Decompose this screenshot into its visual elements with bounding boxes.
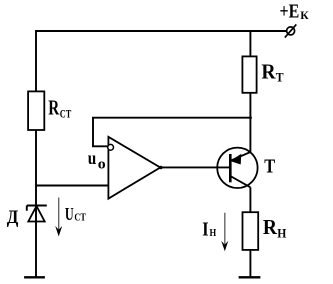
svg-text:I: I (202, 218, 208, 240)
svg-text:Н: Н (277, 226, 286, 240)
svg-text:СТ: СТ (74, 213, 85, 224)
svg-text:о: о (98, 156, 106, 172)
svg-text:Н: Н (210, 227, 217, 239)
svg-text:U: U (65, 204, 74, 224)
svg-text:R: R (263, 215, 278, 239)
svg-text:Д: Д (7, 207, 19, 228)
svg-text:+E: +E (280, 0, 300, 22)
svg-text:К: К (300, 8, 309, 22)
svg-text:R: R (48, 96, 60, 120)
svg-text:R: R (261, 60, 276, 84)
svg-text:u: u (88, 148, 97, 168)
svg-text:Т: Т (276, 71, 284, 85)
svg-text:СТ: СТ (60, 107, 72, 121)
svg-text:T: T (264, 155, 275, 177)
